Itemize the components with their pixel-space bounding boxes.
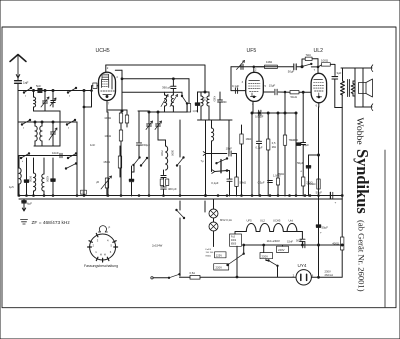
wire band row1 [18, 90, 84, 92]
svg-text:4300: 4300 [213, 96, 216, 102]
switch S1a [24, 88, 31, 93]
speaker [359, 83, 367, 94]
lamp 2 [209, 222, 218, 231]
svg-text:7µ: 7µ [201, 159, 204, 163]
wire UCH5 to osc [115, 69, 122, 71]
wire 7k to UL2 [312, 58, 318, 60]
UCH5 top pin wire [105, 65, 107, 72]
capacitor padder [161, 175, 166, 177]
capacitor 10uF mid [228, 120, 230, 154]
resistor 51k grid leak [290, 91, 299, 94]
svg-text:15nF: 15nF [287, 240, 293, 244]
wire col x60 [59, 111, 61, 146]
svg-text:H: H [100, 252, 102, 256]
switch mains [177, 210, 185, 218]
wire y245 [244, 244, 343, 246]
UCH5 cathode [103, 94, 112, 96]
wire mid bus y111 [138, 110, 149, 112]
svg-text:0,1µF: 0,1µF [232, 84, 239, 88]
svg-text:+: + [335, 201, 337, 205]
UF5 electrodes [249, 80, 260, 82]
wire grid leak col [284, 92, 286, 113]
wire heater left [235, 232, 246, 235]
socket pins [89, 241, 92, 243]
switch S3a [21, 154, 29, 159]
svg-text:(ab Gerät Nr. 26001): (ab Gerät Nr. 26001) [357, 220, 367, 292]
capacitor 390pF [172, 79, 174, 86]
capacitor electrolytic C-left2 [52, 158, 54, 179]
selector 220V box right [260, 253, 273, 259]
svg-text:6µF: 6µF [27, 202, 32, 206]
selector 125V box [215, 252, 227, 258]
selector wires right [263, 245, 265, 253]
selector switch arm right [269, 261, 278, 266]
bus fuse box [81, 190, 87, 194]
svg-text:50kΩ: 50kΩ [240, 181, 247, 185]
wire band row3 [18, 155, 77, 157]
trimmer osc b [157, 112, 159, 124]
resistor 7M [284, 113, 286, 135]
svg-text:0,1µF: 0,1µF [211, 181, 218, 185]
switch osc col [179, 120, 181, 157]
switch S3c [66, 164, 76, 169]
node AF junction [301, 66, 303, 68]
resistor 0.5M [267, 113, 269, 139]
svg-text:50µF: 50µF [322, 226, 329, 230]
wire UCH5 anode to IF [106, 65, 205, 92]
svg-text:H: H [104, 252, 106, 256]
capacitor 3uF [332, 76, 338, 78]
resistor 100R out [321, 63, 330, 66]
svg-text:UCH5: UCH5 [273, 219, 281, 223]
grid cap box UCH5 [93, 83, 97, 89]
svg-text:MΩ: MΩ [272, 145, 276, 149]
coil osc2 [171, 95, 173, 106]
tube UY4 [296, 270, 311, 285]
lamp stub [213, 218, 215, 222]
switch tone bar [220, 160, 222, 173]
UL2 top pin [317, 67, 319, 73]
capacitor 50uF coupling [277, 66, 293, 68]
svg-text:UF5: UF5 [247, 219, 253, 223]
wire IF col to bus [205, 120, 207, 196]
wire stub x205 [204, 201, 206, 212]
selector wire colA [236, 246, 238, 277]
speaker terminal top [371, 65, 373, 72]
trimmer C-L1b [52, 91, 54, 101]
svg-text:P: P [109, 226, 111, 230]
resistor 46-25 [126, 110, 128, 115]
wire lamp down [213, 231, 215, 247]
capacitor 0.02uF [258, 110, 260, 116]
capacitor 0.1uF UF5 grid [231, 90, 246, 92]
resistor 1M [254, 66, 265, 68]
UL2 bottom pin [318, 103, 320, 107]
svg-text:3µF: 3µF [337, 71, 342, 75]
wire to UCH5 grid [84, 90, 92, 92]
svg-text:4200: 4200 [46, 176, 50, 182]
capacitor x260 col [258, 113, 260, 141]
wire B+ column [341, 108, 343, 238]
svg-text:10kΩ: 10kΩ [104, 134, 111, 138]
svg-text:UL2: UL2 [260, 219, 265, 223]
svg-text:300: 300 [223, 101, 228, 104]
switch AF [303, 64, 312, 67]
trimmer C-L2 [52, 122, 54, 132]
capacitor osc col [195, 103, 199, 105]
svg-text:100: 100 [203, 97, 206, 102]
capacitor 15nF UY4 [300, 238, 305, 240]
svg-text:220V: 220V [262, 254, 269, 258]
wire lamp col [213, 199, 215, 209]
svg-text:1MΩ: 1MΩ [246, 137, 252, 141]
wire row2 coil bottoms [34, 141, 36, 146]
resistor 250k [317, 179, 320, 189]
bus line upper [19, 195, 342, 197]
wire output top [334, 64, 337, 66]
capacitor 50uF right2 [308, 155, 310, 166]
selector 240V box right [277, 246, 289, 252]
capacitor 6uF [23, 199, 25, 201]
svg-text:2x154W: 2x154W [152, 244, 163, 248]
wire heater to UY4 [288, 231, 303, 233]
svg-text:0,5: 0,5 [272, 141, 276, 145]
svg-text:7500: 7500 [160, 150, 164, 156]
bus junctions [18, 195, 20, 197]
svg-text:Urd: Urd [289, 219, 294, 223]
svg-text:50µF: 50µF [303, 143, 310, 147]
trimmer capacitor 5pF [38, 88, 42, 92]
resistor col x278 [277, 113, 279, 178]
capacitor y245 [302, 242, 304, 248]
selector wire colB [243, 245, 245, 254]
wire mains col [179, 201, 181, 210]
resistor osc 1k [188, 79, 190, 103]
svg-text:1nF: 1nF [90, 143, 95, 147]
capacitor 150uF [138, 111, 140, 142]
wire mains left [153, 277, 169, 279]
wire left bus [17, 91, 19, 197]
selector box A [230, 234, 242, 246]
ground [21, 220, 28, 225]
svg-text:3600: 3600 [171, 150, 175, 156]
svg-text:100Ω: 100Ω [321, 59, 329, 63]
svg-text:250kΩ: 250kΩ [307, 182, 315, 186]
selector switch arm 1 [228, 254, 244, 265]
wire osc grid loop [84, 86, 92, 107]
svg-text:UCH5: UCH5 [96, 48, 110, 54]
svg-text:50µF: 50µF [316, 191, 323, 195]
switch tone b [212, 170, 215, 174]
capacitor 460pF [161, 186, 167, 188]
coil osc1 [164, 92, 166, 95]
svg-text:110 150: 110 150 [206, 252, 215, 254]
coil L5 [33, 158, 35, 173]
svg-text:MV2 0,1A: MV2 0,1A [220, 218, 232, 222]
svg-text:390 pF: 390 pF [162, 85, 171, 89]
svg-text:5pF: 5pF [36, 84, 41, 88]
svg-text:230V: 230V [325, 270, 331, 274]
node y113 end [295, 112, 297, 114]
svg-text:1MΩ: 1MΩ [266, 60, 273, 64]
resistor 150R [118, 156, 121, 168]
coil L4 [18, 156, 20, 169]
svg-text:100Ω: 100Ω [104, 116, 111, 120]
resistor 100R [120, 110, 122, 113]
svg-text:460 pF: 460 pF [168, 187, 177, 191]
switch tone a [217, 159, 228, 164]
svg-text:4002: 4002 [231, 240, 237, 242]
mains terminal [151, 277, 153, 279]
svg-text:UY4: UY4 [298, 263, 307, 268]
wire band row2 [18, 121, 77, 123]
wire UL2 col to mains [318, 245, 320, 277]
UF5 top pin [253, 67, 255, 73]
svg-text:0,5A: 0,5A [190, 271, 196, 275]
svg-text:15µF: 15µF [269, 84, 276, 88]
UL2 electrodes [314, 79, 323, 81]
capacitor electrolytic mid [131, 166, 133, 179]
switch mains bottom [169, 274, 180, 278]
coil L2 [34, 122, 36, 126]
wire mains col 2 [179, 218, 181, 276]
antenna [10, 55, 26, 62]
resistor 400R [341, 237, 344, 250]
secondary winding [351, 84, 355, 94]
resistor 250R [302, 177, 305, 186]
switch mid1 [134, 158, 140, 166]
UCH5 grid dash row [101, 90, 115, 92]
wire IF bottom y120 [198, 119, 233, 121]
resistor 10k [120, 123, 122, 130]
svg-text:Syndikus: Syndikus [353, 149, 372, 214]
wire speaker frame top [341, 67, 372, 69]
pickup input arrow [203, 152, 206, 156]
node anode jog [204, 91, 206, 93]
resistor 7k [305, 57, 312, 60]
svg-text:8500: 8500 [231, 243, 237, 245]
speaker frame [354, 68, 356, 107]
svg-text:0,5µF: 0,5µF [258, 181, 265, 185]
UCH5 anode [111, 76, 113, 90]
capacitor IF tuning [219, 92, 221, 100]
svg-text:+: + [300, 170, 302, 174]
IF transformer primary [200, 92, 202, 96]
tube UL2 [311, 73, 327, 103]
svg-text:125V: 125V [216, 253, 222, 257]
wire UF5 cathode y113 [252, 112, 257, 114]
wire row1 coil bottoms [33, 107, 35, 111]
bus line lower [19, 198, 342, 200]
svg-text:10µF: 10µF [226, 147, 233, 151]
capacitor 600 [302, 92, 304, 142]
svg-text:850Ω: 850Ω [206, 255, 212, 257]
switch S2a [22, 120, 30, 125]
coil L1 [33, 91, 35, 98]
socket key [98, 226, 107, 232]
wire osc coil top y92 [122, 91, 182, 93]
IF transformer secondary [208, 92, 210, 96]
svg-text:Wobbe: Wobbe [354, 118, 365, 145]
svg-text:Fu5/5: Fu5/5 [206, 249, 212, 251]
svg-text:UL2: UL2 [314, 48, 324, 54]
svg-text:1µ5: 1µ5 [9, 185, 14, 189]
resistor 1M vert [241, 125, 243, 134]
speaker terminal bottom [371, 104, 373, 111]
wire col x77 [76, 122, 78, 196]
svg-text:50µF: 50µF [297, 161, 304, 165]
wire x252 down [251, 113, 253, 196]
switch S3b [68, 154, 76, 159]
lamp 1 [209, 209, 218, 218]
wire switch to UL2 [311, 66, 318, 68]
coil L3 [41, 122, 43, 126]
wire x296 down [295, 143, 297, 196]
capacitor 50uF right1 [295, 113, 297, 143]
svg-text:240V: 240V [278, 248, 285, 252]
UF5 top trimmer [231, 66, 254, 68]
svg-text:250Ω: 250Ω [278, 172, 284, 176]
svg-text:110÷240V: 110÷240V [267, 239, 280, 243]
UF5 bottom pin [252, 101, 254, 113]
UF5 cathode [251, 93, 253, 96]
svg-text:7kΩ: 7kΩ [306, 53, 312, 57]
wire x108 to resistors [108, 109, 127, 111]
svg-text:150Ω: 150Ω [103, 160, 110, 164]
transformer core [347, 80, 349, 97]
svg-text:9000: 9000 [29, 176, 33, 182]
capacitor electrolytic C-left1 [26, 158, 28, 180]
UCH5 hexode [102, 79, 109, 87]
tube UF5 [246, 72, 264, 101]
svg-text:Fassungsbeschaltung: Fassungsbeschaltung [84, 264, 118, 268]
switch osc wave [181, 92, 183, 96]
svg-text:1nF: 1nF [23, 81, 29, 85]
wire anode jog [198, 91, 206, 93]
UY4 electrodes [300, 274, 302, 280]
trimmer osc a [148, 112, 150, 124]
coil L6 [43, 158, 45, 174]
wire right col x84 [83, 91, 85, 197]
switch mid2 [141, 158, 147, 166]
coil osc padder [166, 146, 168, 170]
capacitor electrolytic 50uF heater [316, 225, 320, 227]
UL2 grid coupling [263, 91, 274, 93]
trimmer C-L1a [44, 91, 46, 101]
svg-text:UF5: UF5 [247, 48, 257, 54]
arrow down [22, 205, 25, 211]
svg-text:1,03: 1,03 [193, 111, 198, 113]
switch S2b [67, 120, 75, 125]
wire UY4 right [311, 276, 342, 278]
heater chain [246, 223, 297, 231]
svg-text:220V: 220V [216, 266, 223, 270]
wire osc grid y79 [122, 78, 189, 80]
svg-text:+: + [320, 231, 322, 235]
UL2 cathode [318, 93, 320, 96]
svg-text:262mA: 262mA [325, 273, 334, 277]
potentiometer heater [105, 178, 108, 188]
primary winding [342, 68, 344, 81]
UF5 grid wire [230, 67, 232, 91]
trimmer pair boxes [160, 179, 163, 186]
wire osc bottom y112 [149, 111, 187, 113]
socket circle [90, 234, 116, 260]
resistor 50k [236, 154, 238, 178]
switch S1b [68, 88, 76, 93]
fuse 0.5A box [180, 276, 191, 278]
capacitor antenna 1nF [15, 80, 22, 82]
svg-text:51kΩ: 51kΩ [291, 95, 297, 99]
UCH5 grid box [102, 74, 109, 79]
node row1-right [83, 90, 85, 92]
svg-text:ZF = 468/473 kHz: ZF = 468/473 kHz [32, 220, 71, 226]
svg-text:50µF: 50µF [288, 70, 295, 74]
svg-text:10nF: 10nF [52, 151, 59, 155]
wire to 7k [302, 59, 305, 67]
wire AVC y66 [254, 66, 277, 68]
tube UCH5 [99, 72, 116, 100]
coil AF choke [211, 120, 213, 128]
wire transformer bottom [335, 107, 342, 109]
selector 220V box [214, 264, 229, 270]
UCH5 bottom wire [106, 101, 108, 113]
